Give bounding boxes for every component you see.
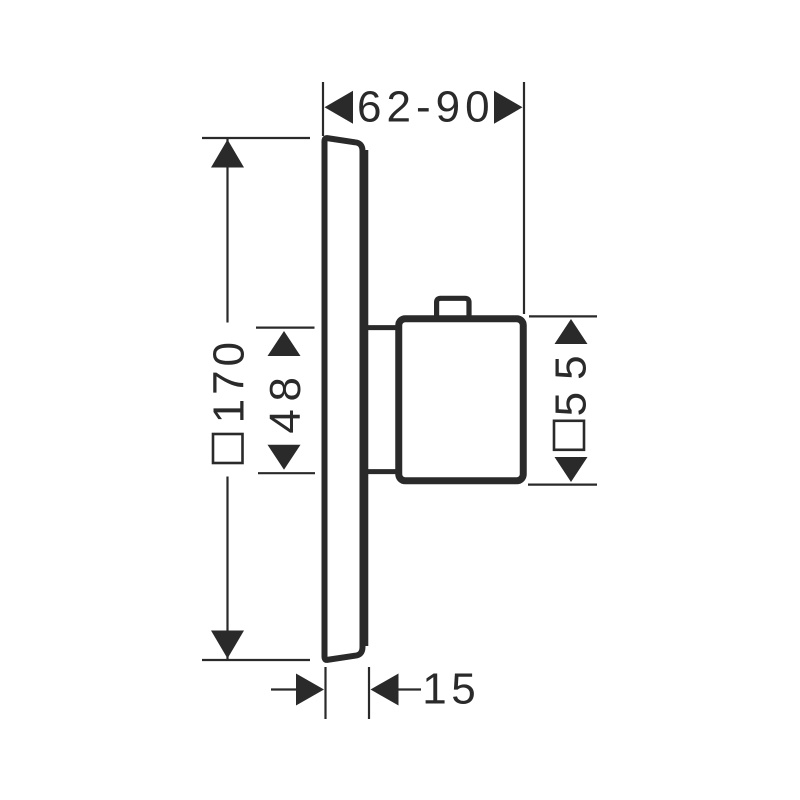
dimension 55 : down arrow	[555, 457, 588, 482]
dimension 15 : right leader line	[399, 688, 422, 690]
dimension 15 : left extension line	[324, 667, 326, 719]
wall plate back edge line	[365, 150, 368, 646]
svg-text:15: 15	[422, 665, 480, 714]
cartridge stem top line	[366, 325, 399, 330]
svg-text:170: 170	[205, 338, 254, 423]
wall plate (side view)	[325, 138, 363, 660]
dimension 48 : bottom extension tick	[258, 472, 315, 474]
dimension 48 : up arrow	[268, 331, 301, 356]
dimension 15 : right extension line	[368, 667, 370, 719]
dimension 170 : top extension tick	[202, 137, 310, 139]
dimension 170 : bottom extension tick	[202, 659, 310, 661]
grip tab on top of knob	[437, 298, 469, 316]
dimension 170 : down arrow	[211, 631, 244, 659]
dimension 15 : left arrow (points right)	[296, 674, 324, 706]
dimension 62-90 : right arrow	[494, 91, 523, 124]
dimension 55 : bottom extension tick	[528, 484, 597, 486]
svg-text:55: 55	[547, 343, 596, 416]
dimension 55 : square symbol	[554, 421, 584, 450]
dimension 55 : up arrow	[555, 319, 588, 344]
dimension 170 : upper dimension line	[226, 139, 228, 323]
dimension 170 : lower dimension line	[226, 477, 228, 660]
handle knob (side view)	[399, 319, 524, 481]
dimension 48 : down arrow	[268, 445, 301, 470]
dimension 15 : right arrow (points left)	[371, 674, 399, 706]
svg-text:62-90: 62-90	[357, 83, 495, 132]
dimension 170 : square symbol	[213, 434, 243, 463]
cartridge stem bottom line	[366, 469, 399, 474]
dimension 15 : left leader line	[271, 688, 297, 690]
dimension 55 : top extension tick	[529, 315, 597, 317]
dimension 48 : top extension tick	[256, 327, 315, 329]
dimension 62-90 : left arrow	[325, 91, 354, 124]
dimension 62-90 : left extension line	[322, 82, 324, 136]
dimension 170 : up arrow	[211, 140, 244, 168]
svg-text:48: 48	[261, 369, 310, 433]
dimension 62-90 : right extension line	[523, 82, 525, 314]
